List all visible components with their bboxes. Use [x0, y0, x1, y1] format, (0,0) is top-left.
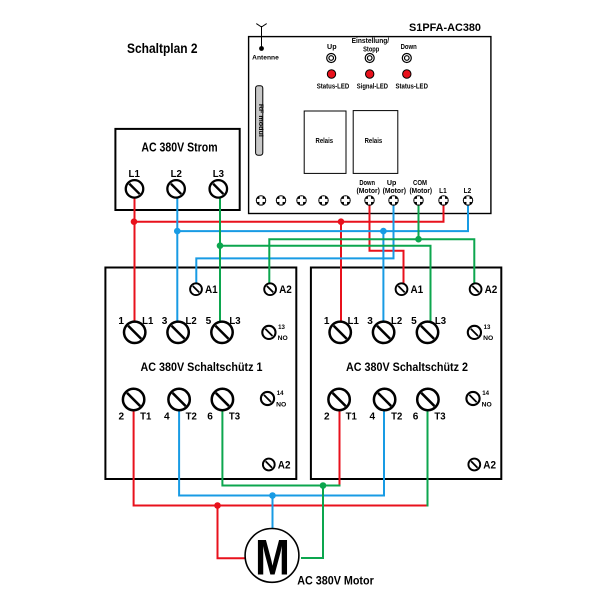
motor M1 — [245, 529, 299, 586]
svg-text:6: 6 — [413, 411, 419, 422]
terminal A2 top contactor2 — [470, 283, 482, 295]
svg-text:4: 4 — [370, 411, 376, 422]
wire red T1 contactor2 down — [339, 400, 341, 485]
terminal 5L3 contactor2 — [417, 322, 438, 343]
terminal A1 contactor2 — [396, 283, 408, 295]
svg-text:A2: A2 — [483, 459, 496, 471]
svg-text:L2: L2 — [464, 188, 472, 195]
svg-text:T3: T3 — [229, 411, 241, 422]
wire red branch to motor — [218, 506, 247, 559]
svg-text:Einstellung/: Einstellung/ — [352, 36, 390, 45]
wire blue L2 strom to contactor1 L2 — [176, 190, 178, 332]
svg-text:T1: T1 — [140, 411, 152, 422]
contactor box K2 AC 380V Schaltschuetz 2 — [311, 268, 501, 480]
svg-text:3: 3 — [367, 316, 373, 327]
svg-text:L1: L1 — [142, 316, 154, 327]
terminal 2T1 contactor2 — [328, 389, 349, 410]
svg-text:T2: T2 — [391, 411, 403, 422]
svg-text:L2: L2 — [171, 168, 182, 180]
terminal unused 1 — [256, 195, 266, 205]
button Down — [402, 54, 411, 63]
svg-text:Status-LED: Status-LED — [317, 84, 350, 91]
terminal unused 5 — [340, 195, 350, 205]
junction blue motor — [269, 492, 276, 499]
svg-text:AC 380V Schaltschütz 2: AC 380V Schaltschütz 2 — [346, 362, 468, 374]
junction blue contactor2 — [380, 228, 387, 235]
svg-text:L3: L3 — [229, 316, 241, 327]
svg-text:L1: L1 — [129, 168, 140, 180]
terminal unused 4 — [318, 195, 328, 205]
svg-text:COM: COM — [413, 180, 427, 187]
junction blue L2 — [174, 228, 181, 235]
terminal L2 strom — [167, 180, 185, 198]
contactor box K1 AC 380V Schaltschuetz 1 — [105, 268, 296, 480]
svg-text:M: M — [255, 530, 290, 586]
wire blue T2 contactor1 to T2 contactor2 — [179, 400, 384, 496]
svg-text:L1: L1 — [439, 188, 447, 195]
LED status 2 — [403, 70, 411, 78]
terminal 13NO contactor1 — [262, 326, 275, 339]
svg-text:S1PFA-AC380: S1PFA-AC380 — [409, 22, 481, 34]
LED signal — [366, 70, 374, 78]
svg-text:5: 5 — [206, 316, 212, 327]
wire red Down(Motor) to A1 contactor2 — [370, 205, 404, 289]
terminal 4T2 contactor2 — [374, 389, 395, 410]
wire green L3 strom to contactor1 L3 — [219, 190, 221, 332]
RF modul — [256, 86, 265, 156]
wire red branch to contactor2 L1 — [340, 222, 342, 332]
terminal 2T1 contactor1 — [123, 389, 144, 410]
wire green branch to motor — [301, 486, 323, 559]
junction red L1 — [131, 218, 138, 225]
svg-text:2: 2 — [119, 411, 125, 422]
terminal 3L2 contactor1 — [167, 322, 188, 343]
terminal L1 strom — [126, 180, 144, 198]
terminal 1L1 contactor2 — [330, 322, 351, 343]
terminal COM (Motor) — [413, 195, 423, 205]
svg-text:NO: NO — [278, 335, 288, 342]
svg-text:14: 14 — [277, 390, 284, 397]
svg-text:Relais: Relais — [365, 138, 383, 145]
svg-text:RF modul: RF modul — [257, 104, 264, 137]
antenna symbol — [256, 24, 266, 51]
svg-text:Signal-LED: Signal-LED — [357, 84, 388, 91]
wire green T3 contactor1 to motor bus — [222, 400, 340, 486]
svg-text:Schaltplan 2: Schaltplan 2 — [127, 41, 198, 56]
svg-text:L3: L3 — [435, 316, 447, 327]
svg-text:T1: T1 — [346, 411, 358, 422]
wire green COM(Motor) down — [418, 205, 420, 239]
svg-text:NO: NO — [483, 335, 493, 342]
svg-text:Up: Up — [387, 180, 397, 187]
svg-text:(Motor): (Motor) — [357, 188, 380, 195]
terminal A1 contactor1 — [190, 283, 202, 295]
svg-text:A2: A2 — [278, 459, 291, 471]
svg-text:4: 4 — [164, 411, 170, 422]
button Up — [327, 54, 336, 63]
terminal A2 bottom contactor1 — [263, 459, 275, 471]
junction green motor — [320, 482, 327, 489]
terminal unused 2 — [276, 195, 286, 205]
terminal Down (Motor) — [364, 195, 374, 205]
terminal 4T2 contactor1 — [168, 389, 189, 410]
svg-text:3: 3 — [162, 316, 168, 327]
wire blue branch to motor — [272, 496, 274, 530]
svg-text:AC 380V Motor: AC 380V Motor — [297, 573, 374, 587]
button Einstellung/Stopp — [365, 54, 374, 63]
svg-text:T2: T2 — [186, 411, 198, 422]
svg-text:Up: Up — [327, 42, 337, 51]
terminal 14NO contactor2 — [466, 392, 479, 405]
svg-text:AC 380V Strom: AC 380V Strom — [141, 139, 217, 154]
svg-text:Relais: Relais — [316, 138, 334, 145]
terminal 6T3 contactor2 — [417, 389, 438, 410]
svg-text:L2: L2 — [186, 316, 198, 327]
svg-text:Status-LED: Status-LED — [395, 84, 428, 91]
svg-text:Down: Down — [359, 180, 375, 187]
svg-text:L2: L2 — [391, 316, 403, 327]
svg-text:L1: L1 — [348, 316, 360, 327]
junction red motor — [214, 502, 221, 509]
relay K1 — [304, 111, 346, 173]
terminal 1L1 contactor1 — [124, 322, 145, 343]
wire red T1 contactor1 to motor bus — [134, 400, 428, 506]
svg-text:A1: A1 — [205, 284, 218, 296]
svg-text:T3: T3 — [434, 411, 446, 422]
terminal L1 controller — [438, 195, 448, 205]
svg-text:(Motor): (Motor) — [383, 188, 406, 195]
junction green COM — [415, 236, 422, 243]
terminal A2 top contactor1 — [264, 283, 276, 295]
svg-text:A1: A1 — [411, 284, 424, 296]
svg-text:L3: L3 — [213, 168, 224, 180]
svg-text:A2: A2 — [485, 284, 498, 296]
terminal unused 3 — [296, 195, 306, 205]
terminal L3 strom — [210, 180, 228, 198]
junction red contactor2 — [338, 218, 345, 225]
wire red L1 strom to contactor1 L1 — [134, 190, 136, 332]
wire blue branch to contactor2 L2 — [382, 231, 384, 332]
relay K2 — [353, 111, 398, 174]
svg-text:13: 13 — [484, 324, 491, 331]
svg-text:Stopp: Stopp — [363, 45, 380, 54]
svg-text:NO: NO — [276, 401, 286, 408]
svg-text:Down: Down — [401, 42, 418, 51]
wire blue Up(Motor) to A1 contactor1 — [196, 205, 393, 289]
junction green L3 — [217, 242, 224, 249]
wire green T3 contactor2 down — [427, 400, 429, 507]
power source box AC 380V Strom — [115, 129, 239, 210]
terminal A2 bottom contactor2 — [468, 459, 480, 471]
svg-text:14: 14 — [482, 390, 489, 397]
wire red branch to controller L1 terminal — [134, 205, 444, 222]
svg-text:5: 5 — [411, 316, 417, 327]
terminal Up (Motor) — [388, 195, 398, 205]
terminal 13NO contactor2 — [468, 326, 481, 339]
svg-text:NO: NO — [482, 401, 492, 408]
wire green A2 coil bus — [269, 239, 474, 289]
controller box S1PFA-AC380 — [249, 37, 491, 214]
svg-text:Antenne: Antenne — [252, 54, 279, 61]
svg-text:A2: A2 — [279, 284, 292, 296]
svg-text:(Motor): (Motor) — [410, 188, 433, 195]
svg-text:1: 1 — [118, 316, 124, 327]
svg-text:2: 2 — [324, 411, 330, 422]
LED status 1 — [327, 70, 335, 78]
svg-text:AC 380V Schaltschütz 1: AC 380V Schaltschütz 1 — [141, 362, 263, 374]
wire green branch to contactor2 L3 — [220, 246, 431, 332]
terminal 6T3 contactor1 — [212, 389, 233, 410]
svg-text:1: 1 — [324, 316, 330, 327]
svg-text:6: 6 — [207, 411, 213, 422]
wire blue branch to controller L2 terminal — [177, 205, 468, 231]
terminal L2 controller — [463, 195, 473, 205]
terminal 5L3 contactor1 — [211, 322, 232, 343]
terminal 14NO contactor1 — [261, 392, 274, 405]
svg-text:13: 13 — [278, 324, 285, 331]
terminal 3L2 contactor2 — [373, 322, 394, 343]
